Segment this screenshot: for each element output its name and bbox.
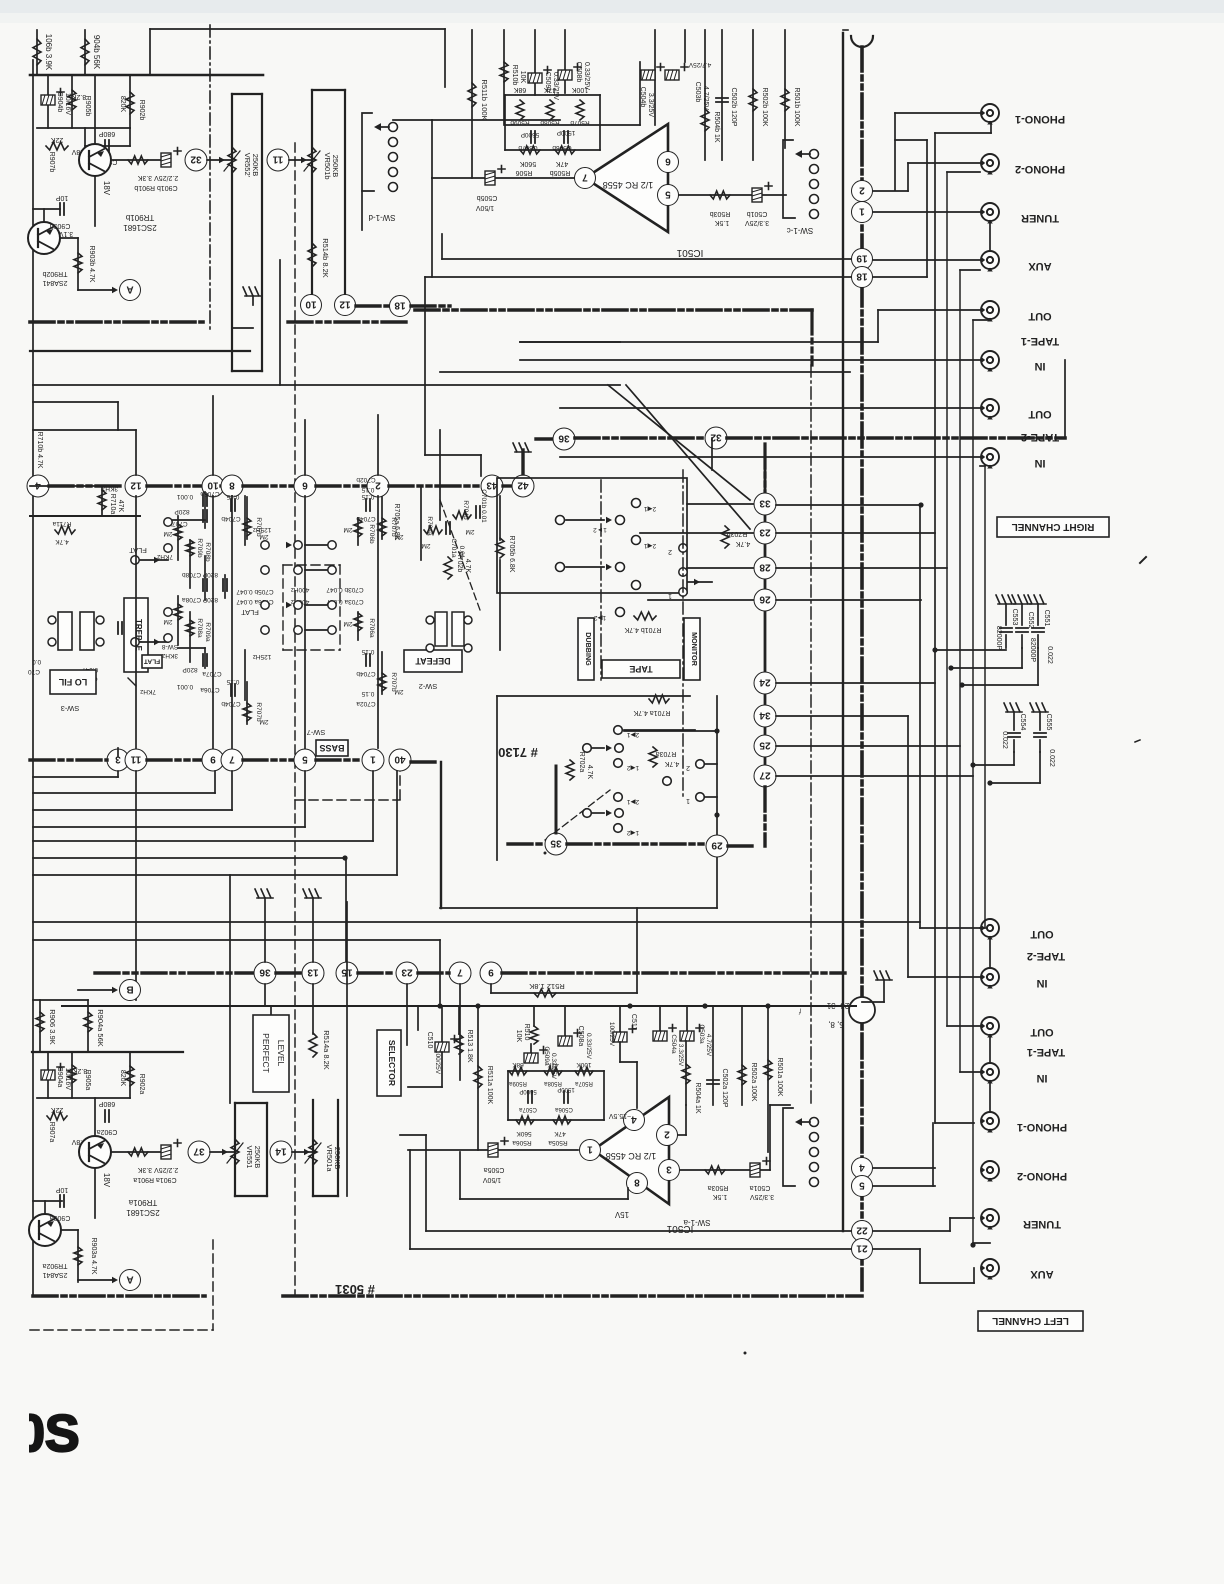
svg-text:0.022: 0.022 bbox=[1046, 646, 1053, 664]
svg-text:0.15: 0.15 bbox=[361, 493, 374, 500]
svg-text:250KB: 250KB bbox=[253, 1146, 262, 1169]
svg-text:A: A bbox=[126, 283, 133, 294]
svg-text:250KB: 250KB bbox=[251, 154, 260, 177]
svg-text:R702a: R702a bbox=[578, 752, 585, 773]
svg-text:42: 42 bbox=[517, 479, 529, 490]
svg-text:2◀1: 2◀1 bbox=[644, 542, 657, 549]
svg-text:2M: 2M bbox=[394, 688, 403, 695]
svg-text:C551: C551 bbox=[1043, 610, 1050, 627]
svg-text:OUT: OUT bbox=[1028, 310, 1052, 322]
svg-text:C501a: C501a bbox=[750, 1184, 771, 1191]
svg-text:OUT: OUT bbox=[1030, 1026, 1054, 1038]
svg-text:29: 29 bbox=[711, 839, 723, 850]
svg-text:OUT: OUT bbox=[1030, 928, 1054, 940]
svg-text:IN: IN bbox=[1036, 1072, 1047, 1084]
svg-text:R504b 1K: R504b 1K bbox=[713, 111, 720, 142]
svg-text:1▶2: 1▶2 bbox=[594, 614, 607, 621]
svg-text:R506a: R506a bbox=[512, 1139, 532, 1146]
svg-text:1: 1 bbox=[859, 205, 865, 216]
svg-text:R906 3.9K: R906 3.9K bbox=[48, 1009, 57, 1044]
svg-text:TUNER: TUNER bbox=[1023, 1218, 1061, 1230]
svg-text:10P: 10P bbox=[55, 194, 68, 201]
svg-text:TUNER: TUNER bbox=[1021, 212, 1059, 224]
svg-text:0.0: 0.0 bbox=[31, 658, 41, 665]
svg-text:820P: 820P bbox=[182, 666, 197, 673]
svg-text:A: A bbox=[126, 1273, 133, 1284]
svg-text:6: 6 bbox=[302, 479, 308, 490]
svg-text:R907b: R907b bbox=[48, 152, 55, 173]
svg-text:8.2K: 8.2K bbox=[71, 93, 86, 100]
svg-text:35: 35 bbox=[550, 837, 562, 848]
svg-text:2M: 2M bbox=[163, 530, 172, 537]
svg-text:R902b: R902b bbox=[138, 100, 145, 121]
svg-text:2SA841: 2SA841 bbox=[42, 1271, 67, 1278]
svg-text:11: 11 bbox=[272, 153, 283, 164]
svg-text:TR902b: TR902b bbox=[42, 270, 67, 277]
svg-text:5, 8,: 5, 8, bbox=[828, 1020, 844, 1029]
svg-text:1: 1 bbox=[370, 753, 376, 764]
svg-text:R701a 4.7K: R701a 4.7K bbox=[633, 709, 670, 716]
svg-text:PHONO-2: PHONO-2 bbox=[1017, 1170, 1067, 1182]
svg-text:DEFEAT: DEFEAT bbox=[415, 656, 451, 666]
svg-text:BASS: BASS bbox=[319, 743, 344, 753]
svg-text:IC501: IC501 bbox=[676, 247, 703, 258]
svg-text:10P: 10P bbox=[55, 1186, 68, 1193]
svg-text:32: 32 bbox=[190, 153, 202, 164]
svg-text:C704b: C704b bbox=[221, 700, 241, 707]
svg-text:R711a: R711a bbox=[52, 520, 71, 527]
svg-text:10: 10 bbox=[207, 479, 219, 490]
svg-text:3KHz: 3KHz bbox=[102, 485, 118, 492]
svg-text:47K: 47K bbox=[117, 500, 124, 513]
svg-text:B: B bbox=[126, 983, 133, 994]
svg-text:0.022: 0.022 bbox=[1001, 731, 1008, 749]
svg-text:R905a: R905a bbox=[84, 1070, 91, 1091]
svg-text:10K: 10K bbox=[519, 71, 526, 84]
svg-text:SW-2: SW-2 bbox=[419, 682, 438, 691]
svg-text:C511: C511 bbox=[630, 1014, 637, 1030]
svg-text:3.3/25V: 3.3/25V bbox=[647, 93, 654, 117]
svg-text:27: 27 bbox=[759, 769, 771, 780]
svg-text:SW-1-d: SW-1-d bbox=[369, 213, 396, 222]
svg-text:1/50V: 1/50V bbox=[483, 1176, 502, 1183]
svg-text:PHONO-2: PHONO-2 bbox=[1015, 163, 1065, 175]
svg-text:25: 25 bbox=[759, 739, 771, 750]
svg-text:C508a: C508a bbox=[577, 1026, 584, 1047]
svg-text:2◀1: 2◀1 bbox=[644, 505, 657, 512]
svg-text:6: 6 bbox=[665, 155, 671, 166]
svg-text:C701a: C701a bbox=[450, 538, 457, 558]
svg-text:2: 2 bbox=[664, 1128, 670, 1139]
svg-text:400Hz: 400Hz bbox=[291, 586, 310, 593]
svg-text:PHONO-1: PHONO-1 bbox=[1017, 1121, 1067, 1133]
svg-text:R507a: R507a bbox=[575, 1080, 593, 1086]
svg-text:C904a: C904a bbox=[56, 1067, 63, 1088]
svg-text:FLAT: FLAT bbox=[144, 657, 160, 664]
svg-text:4.7K: 4.7K bbox=[586, 765, 593, 780]
svg-text:R907a: R907a bbox=[48, 1122, 55, 1143]
svg-text:R703a: R703a bbox=[656, 750, 677, 757]
svg-text:R701b 4.7K: R701b 4.7K bbox=[624, 626, 661, 633]
svg-text:C707a: C707a bbox=[202, 670, 222, 677]
svg-text:9: 9 bbox=[210, 753, 216, 764]
svg-text:SW-3: SW-3 bbox=[61, 704, 80, 713]
svg-text:R514b 8.2K: R514b 8.2K bbox=[321, 238, 330, 278]
svg-text:1/2 RC 4558: 1/2 RC 4558 bbox=[606, 1151, 657, 1161]
svg-text:2SC1681: 2SC1681 bbox=[126, 1208, 160, 1217]
svg-text:0.15: 0.15 bbox=[361, 690, 374, 697]
svg-text:C553: C553 bbox=[1011, 609, 1018, 626]
svg-text:R502b 100K: R502b 100K bbox=[761, 88, 768, 127]
svg-text:106b 3.9K: 106b 3.9K bbox=[44, 34, 53, 71]
svg-text:0.001: 0.001 bbox=[176, 683, 193, 690]
svg-text:# 7130: # 7130 bbox=[498, 745, 538, 760]
svg-text:VR501a: VR501a bbox=[325, 1144, 334, 1172]
svg-text:SW-8: SW-8 bbox=[162, 643, 179, 650]
svg-text:SW-1-c: SW-1-c bbox=[787, 226, 814, 235]
svg-text:R510: R510 bbox=[523, 1024, 530, 1041]
svg-text:23: 23 bbox=[759, 526, 771, 537]
svg-text:ƒ: ƒ bbox=[798, 1008, 801, 1014]
svg-text:C503a: C503a bbox=[698, 1024, 705, 1044]
svg-text:IN: IN bbox=[1034, 360, 1045, 372]
svg-text:5: 5 bbox=[859, 1179, 865, 1190]
svg-text:1►2: 1►2 bbox=[593, 526, 607, 533]
svg-text:1.5K: 1.5K bbox=[714, 219, 729, 226]
svg-text:R905b: R905b bbox=[84, 96, 91, 117]
svg-text:2SC1681: 2SC1681 bbox=[123, 223, 157, 232]
svg-text:IN: IN bbox=[1034, 457, 1045, 469]
svg-text:R904a 56K: R904a 56K bbox=[96, 1009, 105, 1047]
svg-text:1/50V: 1/50V bbox=[476, 204, 495, 211]
svg-text:SELECTOR: SELECTOR bbox=[387, 1040, 397, 1086]
svg-text:4.7/25V: 4.7/25V bbox=[702, 86, 709, 110]
svg-text:C903a: C903a bbox=[50, 1214, 71, 1221]
svg-text:1: 1 bbox=[587, 1143, 593, 1154]
svg-text:# 5031: # 5031 bbox=[335, 1282, 375, 1297]
svg-text:C501b: C501b bbox=[747, 210, 768, 217]
svg-text:0.001: 0.001 bbox=[176, 493, 193, 500]
svg-text:11: 11 bbox=[130, 753, 141, 764]
svg-text:2▶1: 2▶1 bbox=[627, 798, 640, 805]
svg-text:C502a 120P: C502a 120P bbox=[721, 1069, 728, 1108]
svg-text:C505a: C505a bbox=[484, 1166, 505, 1173]
svg-text:TR901a: TR901a bbox=[128, 1198, 157, 1207]
svg-text:680P: 680P bbox=[99, 1100, 116, 1107]
svg-text:C510: C510 bbox=[426, 1032, 433, 1049]
svg-text:R511b 100K: R511b 100K bbox=[480, 79, 489, 120]
svg-text:7: 7 bbox=[582, 171, 588, 182]
svg-text:40: 40 bbox=[394, 753, 406, 764]
svg-text:68K: 68K bbox=[513, 86, 526, 93]
svg-text:33: 33 bbox=[759, 497, 771, 508]
svg-text:47K: 47K bbox=[555, 160, 568, 167]
svg-text:R501a 100K: R501a 100K bbox=[776, 1058, 783, 1097]
svg-text:2M: 2M bbox=[259, 718, 268, 725]
svg-text:2M: 2M bbox=[343, 526, 352, 533]
svg-text:4.7K: 4.7K bbox=[55, 538, 69, 545]
svg-text:C70: C70 bbox=[28, 668, 40, 675]
svg-text:LO FIL: LO FIL bbox=[58, 677, 87, 687]
svg-text:1◀2: 1◀2 bbox=[627, 764, 640, 771]
svg-text:R506: R506 bbox=[516, 169, 533, 176]
svg-text:R709a: R709a bbox=[204, 622, 211, 642]
svg-text:28: 28 bbox=[759, 561, 771, 572]
svg-text:36: 36 bbox=[558, 432, 570, 443]
svg-text:C902a: C902a bbox=[97, 1128, 118, 1135]
svg-text:9: 9 bbox=[488, 966, 494, 977]
svg-text:DUBBING: DUBBING bbox=[584, 632, 593, 666]
svg-text:C505b: C505b bbox=[477, 194, 498, 201]
svg-text:680P: 680P bbox=[99, 130, 116, 137]
svg-text:R710b 4.7K: R710b 4.7K bbox=[36, 432, 43, 469]
svg-text:R710a: R710a bbox=[109, 494, 116, 515]
svg-text:5600P: 5600P bbox=[519, 1088, 536, 1094]
svg-text:R501b 100K: R501b 100K bbox=[793, 88, 800, 127]
svg-text:820K: 820K bbox=[119, 96, 126, 113]
svg-text:MONITOR: MONITOR bbox=[690, 632, 699, 667]
svg-text:PERFECT: PERFECT bbox=[261, 1033, 271, 1073]
svg-text:37: 37 bbox=[193, 1145, 205, 1156]
svg-text:47K: 47K bbox=[554, 1130, 566, 1137]
svg-text:13: 13 bbox=[307, 966, 319, 977]
svg-text:C508b: C508b bbox=[575, 62, 582, 83]
svg-text:R511a 100K: R511a 100K bbox=[486, 1066, 493, 1105]
svg-text:1500P: 1500P bbox=[557, 129, 576, 136]
svg-text:100/25V: 100/25V bbox=[608, 1022, 615, 1047]
svg-text:1: 1 bbox=[686, 797, 690, 804]
svg-text:68K: 68K bbox=[512, 1061, 524, 1068]
svg-text:3.3/25V: 3.3/25V bbox=[745, 219, 769, 226]
svg-text:TR901b: TR901b bbox=[125, 213, 154, 222]
svg-text:5: 5 bbox=[665, 188, 671, 199]
svg-text:1: 1 bbox=[668, 592, 672, 599]
svg-text:IN: IN bbox=[1036, 977, 1047, 989]
svg-text:3.1V: 3.1V bbox=[58, 230, 73, 237]
svg-text:FLAT: FLAT bbox=[129, 546, 147, 555]
svg-text:C555: C555 bbox=[1045, 714, 1052, 731]
svg-text:R708a: R708a bbox=[196, 618, 203, 638]
svg-text:TAPE-2: TAPE-2 bbox=[1027, 950, 1065, 962]
svg-text:−15.5V: −15.5V bbox=[608, 1112, 631, 1119]
svg-text:R509a: R509a bbox=[509, 1080, 527, 1086]
svg-text:4.7/25V: 4.7/25V bbox=[705, 1034, 712, 1057]
svg-text:R903b 4.7K: R903b 4.7K bbox=[88, 246, 95, 283]
svg-text:C706a: C706a bbox=[200, 686, 220, 693]
svg-text:R503b: R503b bbox=[710, 210, 731, 217]
svg-text:RIGHT CHANNEL: RIGHT CHANNEL bbox=[1012, 521, 1095, 532]
svg-text:C554: C554 bbox=[1019, 714, 1026, 731]
svg-text:2.2/25V 3.3K: 2.2/25V 3.3K bbox=[137, 174, 178, 181]
svg-text:125Hz: 125Hz bbox=[253, 653, 272, 660]
svg-text:OUT: OUT bbox=[1028, 408, 1052, 420]
svg-text:R705a 6.8K: R705a 6.8K bbox=[393, 504, 400, 541]
svg-text:C507a: C507a bbox=[519, 1106, 537, 1112]
svg-text:18V: 18V bbox=[102, 181, 111, 196]
svg-text:2: 2 bbox=[686, 764, 690, 771]
svg-text:22K: 22K bbox=[50, 136, 63, 143]
svg-text:10: 10 bbox=[305, 298, 317, 309]
svg-text:R502a 100K: R502a 100K bbox=[750, 1063, 757, 1102]
svg-text:1◀2: 1◀2 bbox=[627, 829, 640, 836]
svg-text:100K: 100K bbox=[572, 86, 589, 93]
svg-text:C504a: C504a bbox=[670, 1034, 677, 1054]
svg-text:C901a R901a: C901a R901a bbox=[133, 1176, 176, 1183]
svg-text:C901b R901b: C901b R901b bbox=[134, 184, 177, 191]
svg-text:R507b: R507b bbox=[570, 119, 590, 126]
svg-text:4.7K: 4.7K bbox=[735, 540, 750, 547]
svg-text:R505b: R505b bbox=[550, 169, 571, 176]
svg-text:8: 8 bbox=[634, 1176, 640, 1187]
svg-text:R706b: R706b bbox=[368, 524, 375, 544]
svg-text:18V: 18V bbox=[102, 1173, 111, 1188]
svg-text:C703b 0.047: C703b 0.047 bbox=[326, 586, 364, 593]
svg-text:0.33/25V: 0.33/25V bbox=[585, 1033, 592, 1060]
svg-text:82000P: 82000P bbox=[1029, 638, 1036, 662]
svg-text:2M: 2M bbox=[163, 618, 172, 625]
svg-text:R505a: R505a bbox=[548, 1139, 568, 1146]
svg-text:820K: 820K bbox=[119, 1070, 126, 1087]
svg-text:FLAT: FLAT bbox=[241, 608, 259, 617]
svg-text:14: 14 bbox=[275, 1145, 287, 1156]
svg-text:100K: 100K bbox=[576, 1061, 592, 1068]
svg-text:4.7/25V: 4.7/25V bbox=[688, 61, 711, 68]
svg-text:2.2/25V 3.3K: 2.2/25V 3.3K bbox=[137, 1166, 178, 1173]
svg-text:82000P: 82000P bbox=[995, 626, 1002, 650]
svg-text:5600P: 5600P bbox=[521, 131, 540, 138]
svg-text:1500P: 1500P bbox=[557, 1086, 574, 1092]
svg-text:2M: 2M bbox=[259, 533, 268, 540]
svg-text:820P: 820P bbox=[174, 508, 189, 515]
svg-text:7: 7 bbox=[229, 753, 235, 764]
svg-text:C705b 0.047: C705b 0.047 bbox=[236, 588, 274, 595]
svg-text:C506a: C506a bbox=[555, 1106, 573, 1112]
svg-text:100/25V: 100/25V bbox=[434, 1050, 441, 1075]
svg-text:904b 56K: 904b 56K bbox=[92, 35, 101, 70]
svg-text:24: 24 bbox=[759, 676, 771, 687]
svg-text:2M: 2M bbox=[343, 620, 352, 627]
svg-text:2: 2 bbox=[668, 548, 672, 555]
svg-text:19: 19 bbox=[856, 252, 868, 263]
svg-text:TAPE-1: TAPE-1 bbox=[1027, 1046, 1065, 1058]
svg-text:560K: 560K bbox=[520, 160, 537, 167]
svg-text:2SA841: 2SA841 bbox=[42, 279, 67, 286]
svg-text:R704a: R704a bbox=[426, 516, 433, 536]
svg-text:C706b: C706b bbox=[200, 490, 220, 497]
svg-text:C704b: C704b bbox=[356, 670, 376, 677]
svg-text:C702a: C702a bbox=[356, 700, 376, 707]
svg-text:R903a 4.7K: R903a 4.7K bbox=[90, 1238, 97, 1275]
svg-text:VR501b: VR501b bbox=[323, 152, 332, 179]
svg-text:SW-7: SW-7 bbox=[307, 728, 326, 737]
svg-text:C502b 120P: C502b 120P bbox=[730, 88, 737, 127]
svg-text:4.7K: 4.7K bbox=[664, 760, 679, 767]
svg-text:1/2 RC 4558: 1/2 RC 4558 bbox=[603, 180, 654, 190]
svg-text:AUX: AUX bbox=[1030, 1268, 1054, 1280]
svg-text:LEVEL: LEVEL bbox=[276, 1040, 286, 1067]
svg-text:R514a 8.2K: R514a 8.2K bbox=[322, 1030, 331, 1070]
svg-text:15V: 15V bbox=[614, 1210, 629, 1219]
svg-text:SW-1-a: SW-1-a bbox=[683, 1218, 711, 1227]
svg-text:2M: 2M bbox=[465, 528, 474, 535]
svg-text:R709b: R709b bbox=[196, 538, 203, 558]
svg-text:TAPE: TAPE bbox=[629, 664, 652, 674]
svg-text:12: 12 bbox=[130, 479, 142, 490]
svg-text:PHONO-1: PHONO-1 bbox=[1015, 113, 1065, 125]
svg-text:C903b: C903b bbox=[50, 222, 71, 229]
svg-text:C704b: C704b bbox=[356, 515, 376, 522]
svg-text:34: 34 bbox=[759, 709, 771, 720]
svg-text:12: 12 bbox=[339, 298, 351, 309]
svg-text:TAPE-1: TAPE-1 bbox=[1021, 335, 1059, 347]
svg-text:C701b 0.01: C701b 0.01 bbox=[480, 489, 487, 523]
svg-text:R513 1.8K: R513 1.8K bbox=[466, 1029, 473, 1062]
svg-text:0.022: 0.022 bbox=[1048, 749, 1055, 767]
svg-text:8: 8 bbox=[229, 479, 235, 490]
svg-text:R512 1.8K: R512 1.8K bbox=[529, 982, 564, 991]
svg-text:3: 3 bbox=[666, 1163, 672, 1174]
svg-text:5: 5 bbox=[302, 753, 308, 764]
svg-text:R508a: R508a bbox=[544, 1080, 562, 1086]
svg-text:4.7K: 4.7K bbox=[464, 559, 471, 574]
svg-text:23: 23 bbox=[401, 966, 413, 977]
svg-text:47K: 47K bbox=[543, 86, 556, 93]
svg-text:36: 36 bbox=[259, 966, 271, 977]
svg-text:LEFT CHANNEL: LEFT CHANNEL bbox=[992, 1315, 1069, 1326]
svg-text:TR902a: TR902a bbox=[42, 1262, 67, 1269]
svg-text:0.15: 0.15 bbox=[361, 486, 374, 493]
svg-text:C704b: C704b bbox=[221, 515, 241, 522]
svg-text:R510b: R510b bbox=[511, 65, 518, 86]
svg-text:250KB: 250KB bbox=[331, 155, 340, 178]
svg-text:125Hz: 125Hz bbox=[253, 526, 272, 533]
svg-text:3.3/25V: 3.3/25V bbox=[677, 1044, 684, 1067]
svg-text:560K: 560K bbox=[516, 1130, 532, 1137]
svg-text:C702b: C702b bbox=[356, 476, 376, 483]
svg-text:1.5K: 1.5K bbox=[712, 1193, 727, 1200]
svg-text:R504a 1K: R504a 1K bbox=[694, 1082, 701, 1113]
svg-text:47K: 47K bbox=[547, 1061, 559, 1068]
svg-text:VR552’: VR552’ bbox=[243, 153, 252, 178]
svg-text:C552: C552 bbox=[1027, 612, 1034, 629]
svg-text:R704b: R704b bbox=[462, 500, 469, 520]
svg-text:C503b: C503b bbox=[694, 82, 701, 103]
svg-text:7KHz: 7KHz bbox=[140, 688, 156, 695]
svg-text:AUX: AUX bbox=[1028, 260, 1052, 272]
svg-text:R902a: R902a bbox=[138, 1074, 145, 1095]
svg-text:2: 2 bbox=[859, 184, 865, 195]
svg-text:3.3/25V: 3.3/25V bbox=[750, 1193, 774, 1200]
svg-text:2▶1: 2▶1 bbox=[627, 731, 640, 738]
svg-text:R706a: R706a bbox=[368, 618, 375, 638]
svg-text:10K: 10K bbox=[515, 1030, 522, 1043]
svg-text:3KHz: 3KHz bbox=[162, 652, 178, 659]
svg-text:22: 22 bbox=[856, 1224, 868, 1235]
svg-text:18: 18 bbox=[856, 270, 868, 281]
svg-text:C904b: C904b bbox=[56, 92, 63, 113]
svg-text:7KHz: 7KHz bbox=[157, 553, 173, 560]
svg-text:R705b 6.8K: R705b 6.8K bbox=[508, 536, 515, 573]
svg-text:4: 4 bbox=[35, 479, 41, 490]
svg-text:0.15: 0.15 bbox=[361, 648, 374, 655]
svg-text:21: 21 bbox=[856, 1242, 868, 1253]
svg-text:4: 4 bbox=[859, 1161, 865, 1172]
svg-text:VR551: VR551 bbox=[245, 1146, 254, 1169]
svg-text:22K: 22K bbox=[50, 1106, 63, 1113]
svg-text:7: 7 bbox=[457, 966, 463, 977]
svg-text:R503a: R503a bbox=[708, 1184, 729, 1191]
svg-text:26: 26 bbox=[759, 593, 771, 604]
